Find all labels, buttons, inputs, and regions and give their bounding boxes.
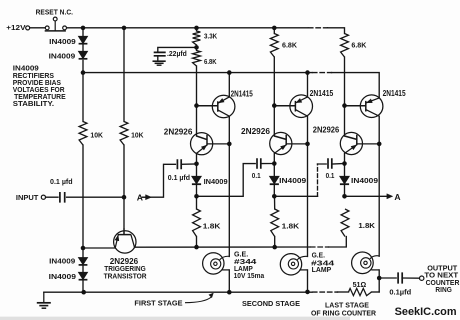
svg-text:IN4009: IN4009 — [279, 176, 306, 185]
lamp L3 G.E. #344 last stage — [352, 252, 380, 274]
ground symbol for .22ufd — [153, 61, 166, 65]
svg-text:2N1415: 2N1415 — [231, 89, 254, 98]
wire stage2 to stage3 coupling (dashed riser) — [274, 195, 317, 197]
junction bus/3.3K — [194, 26, 199, 31]
lamp L1 G.E. #344 first stage — [203, 253, 230, 274]
terminal INPUT — [41, 195, 45, 199]
wire ground bus — [44, 291, 312, 293]
junction reset/bus — [81, 26, 86, 31]
svg-text:0.1 µfd: 0.1 µfd — [50, 177, 73, 186]
junction Q3 collector/Q6 base — [377, 142, 382, 147]
junction bus/trigger line — [122, 26, 127, 31]
transistor Q4 2N2926 stage1 — [191, 133, 230, 155]
junction rail/Q1 emitter — [227, 70, 232, 75]
junction 1.8K stage2/midline — [272, 245, 277, 250]
wire bias rail dashed section — [313, 72, 332, 74]
svg-text:2N1415: 2N1415 — [310, 89, 334, 98]
junction C2/Q5 emitter — [272, 161, 277, 166]
ground symbol main (bottom left) — [37, 292, 51, 308]
resistor 1.8K stage3 — [341, 209, 349, 237]
svg-text:1.8K: 1.8K — [203, 221, 221, 230]
capacitor input 0.1ufd plates — [60, 52, 402, 283]
wire A-loop into stage1 cap — [142, 164, 196, 197]
svg-text:INPUT: INPUT — [16, 193, 39, 202]
junction 3.3K/6.8K/.22ufd — [194, 45, 199, 50]
transistor Q1 2N1415 stage1 — [197, 95, 235, 118]
wire mid trigger line y=247 — [135, 246, 311, 248]
junction input/trigger base — [122, 195, 127, 200]
junction Q1 base stage1 — [194, 103, 199, 108]
svg-text:.22µfd: .22µfd — [167, 49, 187, 58]
diode D5 1N4009 stage1 — [192, 176, 201, 183]
junction Q3 base stage3 — [342, 103, 347, 108]
transistor Q7 2N2926 triggering — [114, 228, 136, 253]
svg-text:A: A — [394, 192, 400, 202]
svg-text:6.8K: 6.8K — [351, 40, 366, 49]
wire stage1 main vertical x=196.5 — [196, 28, 198, 247]
svg-text:10K: 10K — [90, 130, 103, 139]
svg-text:0.1 µfd: 0.1 µfd — [168, 173, 191, 182]
capacitor .22ufd bypass plates (horizontal) — [154, 52, 166, 55]
diode D1 1N4009 reset chain top — [79, 36, 350, 279]
wire bias rail east end into Q2 emitter — [332, 73, 380, 98]
wire trigger base vertical x=124 — [123, 28, 125, 235]
svg-text:SECOND STAGE: SECOND STAGE — [242, 299, 300, 308]
wire stage2 main vertical x=274.3 — [273, 28, 275, 247]
svg-text:6.8K: 6.8K — [204, 57, 217, 66]
junction rail/Q2 emitter — [305, 70, 310, 75]
node A connector east — [387, 194, 393, 199]
junction C3/Q6 emitter — [342, 161, 347, 166]
svg-text:10K: 10K — [131, 130, 144, 139]
diode D7 1N4009 stage3 — [340, 176, 349, 183]
svg-text:IN4009: IN4009 — [49, 52, 76, 61]
svg-text:TRANSISTOR: TRANSISTOR — [104, 272, 147, 281]
wire stage3 output to A arrow — [345, 195, 387, 197]
svg-text:RESET N.C.: RESET N.C. — [36, 8, 73, 17]
capacitor C1 0.1ufd stage1 plates — [177, 159, 181, 169]
svg-text:2N2926: 2N2926 — [313, 126, 340, 135]
junction output node — [377, 276, 382, 281]
junction lamp L1/ground — [227, 290, 232, 295]
capacitor C3 0.1 stage3 plates — [328, 158, 332, 168]
junction D6/coupling stage2 — [272, 194, 277, 199]
wire trigger emitter left — [83, 247, 115, 249]
svg-text:OF RING COUNTER: OF RING COUNTER — [311, 308, 376, 317]
resistor 1.8K stage1 — [193, 209, 201, 237]
svg-text:2N1415: 2N1415 — [383, 89, 406, 98]
svg-text:IN4009: IN4009 — [204, 177, 228, 186]
svg-text:STABILITY.: STABILITY. — [13, 99, 54, 108]
svg-text:IN4009: IN4009 — [49, 257, 75, 266]
wire output node to cap and terminal — [379, 277, 419, 279]
diode D4 1N4009 trigger emitter bottom — [79, 272, 88, 279]
junction bus/6.8K stage2 — [272, 26, 277, 31]
wire top bus to 6.8K stage3 — [328, 28, 345, 34]
junction trigger emitter/diodes — [81, 246, 86, 251]
resistor 10K left — [79, 122, 87, 146]
resistor 1.8K stage2 — [271, 209, 279, 237]
junction 1.8K stage1/midline — [194, 245, 199, 250]
wire top bus dashed section — [309, 27, 328, 29]
svg-text:IN4009: IN4009 — [49, 272, 76, 281]
resistor 51 ohm — [349, 288, 372, 295]
wire stage2 collector line x=307.5 — [307, 73, 309, 292]
svg-text:3.3K: 3.3K — [204, 32, 218, 41]
svg-text:SeekIC.com: SeekIC.com — [395, 306, 457, 318]
junction Q2 base stage2 — [272, 103, 277, 108]
svg-text:0.1µfd: 0.1µfd — [389, 288, 411, 297]
junction lamp L2/ground — [305, 290, 310, 295]
capacitor output 0.1ufd plates — [398, 272, 402, 283]
junction D5/coupling stage1 — [194, 194, 199, 199]
junction ground bus west — [81, 290, 86, 295]
svg-text:2N2926: 2N2926 — [241, 127, 271, 136]
svg-text:1.8K: 1.8K — [358, 221, 375, 230]
junction C1/Q4 emitter — [194, 162, 199, 167]
resistor 6.8K stage1 — [193, 51, 201, 67]
transistor Q6 2N2926 stage3 — [340, 132, 379, 154]
svg-text:RING: RING — [435, 285, 451, 294]
terminal OUTPUT — [420, 276, 424, 280]
transistor Q3 2N1415 stage3 — [345, 95, 383, 118]
svg-text:51Ω: 51Ω — [353, 280, 367, 289]
resistor 3.3K — [79, 31, 371, 296]
arrow from FIRST STAGE caption to ground bus — [185, 293, 213, 303]
svg-text:A: A — [137, 192, 143, 202]
diode D3 1N4009 trigger emitter top — [79, 258, 88, 265]
reset switch N.C. pushbutton — [45, 17, 67, 31]
transistor Q2 2N1415 stage2 — [274, 95, 312, 118]
wire stage3 main vertical x=344.5 — [344, 57, 346, 196]
wire stage1 collector line x=229.3 — [228, 73, 230, 293]
junction D7/node A east — [342, 194, 347, 199]
wire left vertical x=83 top: diodes chain — [82, 28, 84, 73]
svg-text:10V 15ma: 10V 15ma — [234, 271, 265, 280]
svg-text:1.8K: 1.8K — [282, 221, 300, 230]
junction rail west — [81, 70, 86, 75]
wire stage3 collector line x=379.2 — [378, 116, 380, 292]
wire bias rail y=72.6 — [83, 72, 312, 74]
svg-text:2N2926: 2N2926 — [164, 127, 193, 136]
wire input coupling — [46, 196, 124, 198]
svg-text:IN4009: IN4009 — [49, 37, 76, 46]
wire left vertical x=83 to 10K and lower junction — [82, 73, 84, 293]
transistor Q5 2N2926 stage2 — [270, 132, 308, 154]
svg-text:LAMP: LAMP — [312, 265, 332, 274]
capacitor C2 0.1 stage2 plates — [257, 158, 261, 168]
svg-text:0.1: 0.1 — [326, 171, 335, 180]
lamp L2 G.E. #344 second stage — [280, 254, 307, 275]
resistor 6.8K stage3 — [341, 34, 349, 58]
junction Q1 collector/Q4 base — [227, 142, 232, 147]
wire +12V feed and top bus — [30, 27, 308, 29]
svg-text:IN4009: IN4009 — [351, 176, 378, 185]
svg-text:+12V: +12V — [6, 23, 26, 32]
wire .22uf cap to divider junction — [158, 47, 197, 60]
resistor 6.8K stage2 — [270, 34, 278, 58]
diode D2 1N4009 reset chain bottom — [79, 51, 88, 58]
svg-text:0.1: 0.1 — [252, 171, 261, 180]
diode D6 1N4009 stage2 — [270, 176, 279, 183]
svg-text:6.8K: 6.8K — [282, 40, 297, 49]
svg-text:FIRST STAGE: FIRST STAGE — [134, 299, 182, 308]
scan shadow bottom edge — [0, 317, 350, 320]
terminal +12V — [26, 26, 424, 281]
resistor 10K right — [120, 122, 128, 146]
junction Q2 collector/Q5 base — [305, 142, 310, 147]
wire stage1 to stage2 coupling — [197, 164, 275, 197]
node A connector west — [142, 195, 151, 200]
